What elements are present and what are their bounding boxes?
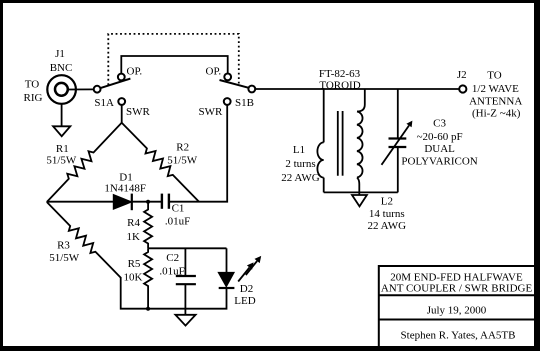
svg-text:L2: L2 xyxy=(381,196,393,208)
svg-text:2 turns: 2 turns xyxy=(285,158,315,170)
svg-text:D2: D2 xyxy=(240,283,253,295)
svg-text:R2: R2 xyxy=(176,142,189,154)
svg-text:S1B: S1B xyxy=(235,97,254,109)
svg-text:SWR: SWR xyxy=(198,106,223,118)
svg-text:D1: D1 xyxy=(119,171,132,183)
svg-text:TO: TO xyxy=(487,69,502,81)
svg-text:R5: R5 xyxy=(128,258,141,270)
svg-text:R4: R4 xyxy=(127,217,140,229)
svg-text:OP.: OP. xyxy=(206,65,222,77)
svg-text:July 19, 2000: July 19, 2000 xyxy=(427,304,487,316)
svg-text:51/5W: 51/5W xyxy=(49,252,80,264)
svg-text:1/2 WAVE: 1/2 WAVE xyxy=(472,83,519,95)
svg-text:J1: J1 xyxy=(55,48,65,60)
svg-text:L1: L1 xyxy=(293,144,305,156)
svg-text:FT-82-63: FT-82-63 xyxy=(319,68,361,80)
svg-text:LED: LED xyxy=(234,295,255,307)
svg-text:R3: R3 xyxy=(57,239,70,251)
svg-text:~20-60 pF: ~20-60 pF xyxy=(417,131,463,143)
svg-text:POLYVARICON: POLYVARICON xyxy=(401,156,477,168)
svg-text:14 turns: 14 turns xyxy=(369,208,405,220)
svg-text:ANT COUPLER / SWR BRIDGE: ANT COUPLER / SWR BRIDGE xyxy=(381,283,533,295)
svg-text:RIG: RIG xyxy=(24,92,43,104)
svg-text:51/5W: 51/5W xyxy=(167,155,198,167)
svg-text:10K: 10K xyxy=(124,271,143,283)
svg-text:OP.: OP. xyxy=(127,65,143,77)
svg-text:C2: C2 xyxy=(166,252,179,264)
svg-text:DUAL: DUAL xyxy=(424,143,455,155)
svg-text:J2: J2 xyxy=(457,69,467,81)
svg-text:TO: TO xyxy=(25,79,40,91)
svg-text:22 AWG: 22 AWG xyxy=(281,172,320,184)
svg-text:.01uF: .01uF xyxy=(165,216,190,228)
svg-text:TOROID: TOROID xyxy=(319,80,360,92)
svg-text:BNC: BNC xyxy=(50,62,73,74)
svg-text:22 AWG: 22 AWG xyxy=(368,220,407,232)
svg-text:C3: C3 xyxy=(433,118,446,130)
svg-text:1N4148F: 1N4148F xyxy=(104,183,146,195)
svg-text:51/5W: 51/5W xyxy=(46,155,77,167)
svg-text:Stephen R. Yates, AA5TB: Stephen R. Yates, AA5TB xyxy=(401,330,516,342)
svg-text:C1: C1 xyxy=(172,203,185,215)
svg-text:.01uF: .01uF xyxy=(159,266,184,278)
svg-text:ANTENNA: ANTENNA xyxy=(469,96,522,108)
svg-text:R1: R1 xyxy=(56,143,69,155)
svg-text:1K: 1K xyxy=(126,231,140,243)
svg-text:SWR: SWR xyxy=(126,106,151,118)
svg-text:(Hi-Z ~4k): (Hi-Z ~4k) xyxy=(472,108,521,120)
svg-text:S1A: S1A xyxy=(94,97,114,109)
